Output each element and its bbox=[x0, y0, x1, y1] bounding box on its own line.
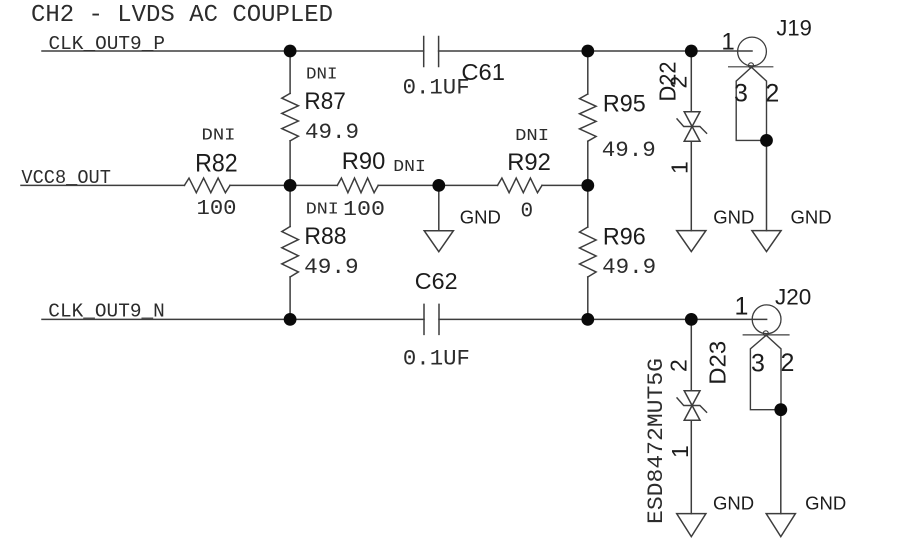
node junction dot 7 bbox=[284, 313, 297, 326]
wire GND stub mid bbox=[438, 185, 440, 230]
svg-text:49.9: 49.9 bbox=[305, 120, 359, 145]
wire J20 pin2 to GND bbox=[780, 410, 782, 514]
svg-text:C61: C61 bbox=[461, 59, 505, 85]
svg-text:GND: GND bbox=[805, 492, 846, 513]
svg-text:2: 2 bbox=[666, 359, 692, 372]
ground D23 bbox=[677, 514, 706, 537]
resistor R88 bbox=[282, 227, 299, 278]
svg-text:1: 1 bbox=[735, 293, 749, 321]
svg-text:3: 3 bbox=[751, 349, 765, 377]
diode D22 TVS bbox=[684, 112, 700, 142]
svg-text:R90: R90 bbox=[342, 148, 386, 175]
svg-text:CH2 - LVDS AC COUPLED: CH2 - LVDS AC COUPLED bbox=[31, 2, 333, 29]
svg-text:ESD8472MUT5G: ESD8472MUT5G bbox=[644, 358, 669, 524]
node junction dot 2 bbox=[581, 45, 594, 58]
svg-text:3: 3 bbox=[734, 80, 748, 108]
node junction dot 1 bbox=[284, 45, 297, 58]
wire vertical column x=588 bbox=[587, 51, 589, 319]
svg-text:49.9: 49.9 bbox=[304, 255, 359, 280]
resistor R82 bbox=[184, 178, 230, 193]
svg-text:DNI: DNI bbox=[306, 201, 339, 220]
resistor R96 bbox=[580, 227, 597, 277]
svg-text:1: 1 bbox=[667, 445, 693, 458]
svg-text:J19: J19 bbox=[776, 16, 811, 41]
node junction dot 3 bbox=[685, 45, 698, 58]
node junction dot 5 bbox=[432, 179, 445, 192]
svg-text:0.1UF: 0.1UF bbox=[403, 75, 470, 100]
resistor R92 bbox=[498, 178, 543, 193]
connector J20 bbox=[752, 305, 781, 334]
wire D22 branch bbox=[690, 51, 692, 231]
svg-text:49.9: 49.9 bbox=[602, 138, 656, 163]
svg-text:1: 1 bbox=[721, 29, 734, 56]
ground D22 bbox=[677, 231, 706, 252]
node junction dot 6 bbox=[581, 179, 594, 192]
svg-text:GND: GND bbox=[713, 207, 754, 228]
svg-text:GND: GND bbox=[460, 206, 501, 227]
ground mid (R90/R92 tap) bbox=[424, 231, 453, 252]
svg-text:1: 1 bbox=[667, 161, 693, 174]
svg-text:DNI: DNI bbox=[202, 126, 236, 145]
svg-text:R88: R88 bbox=[304, 223, 346, 250]
capacitor C62 bbox=[424, 304, 439, 334]
resistor R87 bbox=[282, 93, 299, 140]
svg-text:DNI: DNI bbox=[393, 157, 426, 176]
wire D23 branch bbox=[690, 319, 692, 513]
svg-text:0.1UF: 0.1UF bbox=[403, 347, 470, 372]
ground J19 pin2 bbox=[752, 231, 781, 252]
svg-text:R95: R95 bbox=[603, 90, 646, 117]
ground J20 pin2 bbox=[766, 514, 795, 537]
resistor R95 bbox=[580, 94, 597, 141]
svg-text:GND: GND bbox=[713, 492, 754, 513]
wire CLK_OUT9_P top net bbox=[42, 50, 752, 52]
svg-text:R82: R82 bbox=[195, 149, 238, 177]
svg-text:DNI: DNI bbox=[306, 65, 338, 84]
wire vertical column x=290 bbox=[289, 51, 291, 319]
wire J19 pin2 to GND bbox=[766, 140, 768, 230]
resistor R90 bbox=[337, 178, 378, 193]
svg-text:0: 0 bbox=[521, 200, 534, 223]
svg-text:J20: J20 bbox=[775, 284, 811, 309]
svg-text:CLK_OUT9_N: CLK_OUT9_N bbox=[48, 301, 164, 323]
svg-text:2: 2 bbox=[666, 76, 692, 89]
svg-text:100: 100 bbox=[197, 198, 237, 221]
svg-text:GND: GND bbox=[791, 207, 832, 228]
svg-text:2: 2 bbox=[765, 80, 779, 108]
diode D23 TVS bbox=[684, 391, 700, 421]
svg-text:R96: R96 bbox=[603, 223, 646, 250]
node junction dot 8 bbox=[581, 313, 594, 326]
svg-text:VCC8_OUT: VCC8_OUT bbox=[21, 167, 111, 189]
node junction dot 11 bbox=[774, 403, 787, 416]
connector J19 bbox=[738, 37, 767, 66]
svg-text:2: 2 bbox=[781, 349, 795, 377]
node junction dot 9 bbox=[685, 313, 698, 326]
wire CLK_OUT9_N bottom net bbox=[42, 318, 767, 320]
svg-text:100: 100 bbox=[343, 198, 385, 222]
node junction dot 10 bbox=[760, 134, 773, 147]
svg-text:49.9: 49.9 bbox=[602, 255, 656, 280]
svg-text:C62: C62 bbox=[415, 268, 458, 294]
svg-text:R87: R87 bbox=[304, 88, 345, 115]
svg-text:DNI: DNI bbox=[515, 126, 549, 145]
wire VCC8_OUT middle net bbox=[21, 184, 588, 186]
svg-text:R92: R92 bbox=[507, 149, 551, 176]
capacitor C61 bbox=[424, 37, 439, 67]
svg-text:CLK_OUT9_P: CLK_OUT9_P bbox=[49, 33, 166, 55]
svg-text:D23: D23 bbox=[704, 341, 730, 385]
node junction dot 4 bbox=[284, 179, 297, 192]
